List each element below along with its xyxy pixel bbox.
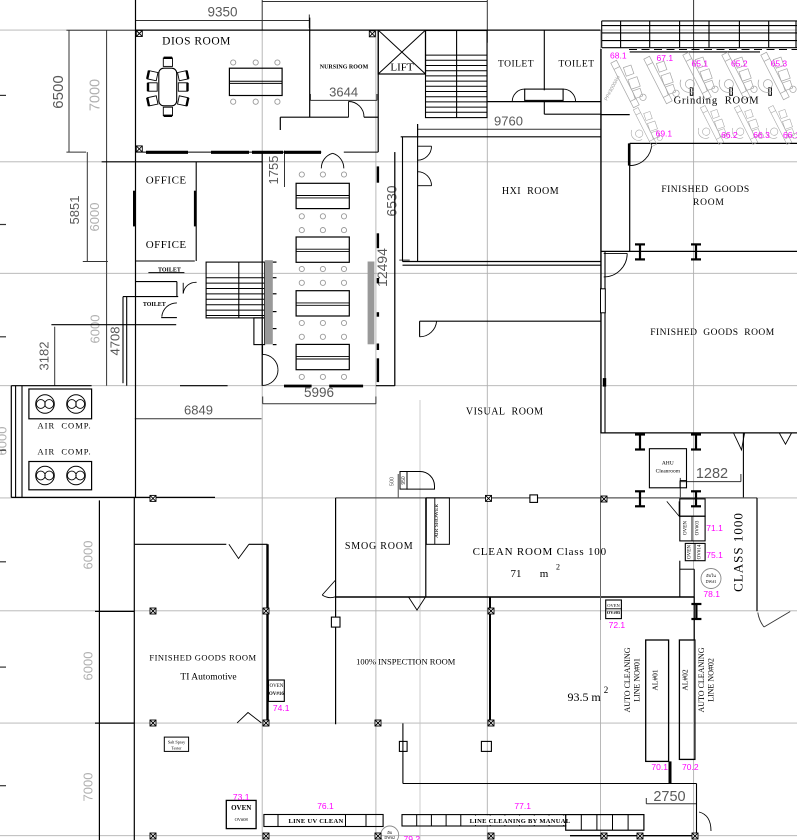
svg-text:AL#02: AL#02 bbox=[680, 669, 689, 690]
svg-text:AUTO CLEANING: AUTO CLEANING bbox=[697, 647, 706, 712]
svg-text:93.5: 93.5 bbox=[568, 690, 589, 704]
svg-text:7000: 7000 bbox=[81, 773, 96, 802]
svg-text:TOILET: TOILET bbox=[498, 60, 534, 70]
svg-text:SMOG ROOM: SMOG ROOM bbox=[345, 541, 414, 552]
svg-text:5851: 5851 bbox=[67, 196, 82, 225]
svg-text:500: 500 bbox=[390, 477, 396, 486]
svg-text:76.1: 76.1 bbox=[317, 801, 334, 811]
svg-text:72.1: 72.1 bbox=[609, 620, 626, 630]
svg-text:FINISHED GOODS ROOM: FINISHED GOODS ROOM bbox=[149, 653, 256, 663]
svg-text:6500: 6500 bbox=[50, 75, 67, 108]
svg-text:1755: 1755 bbox=[266, 156, 281, 185]
svg-text:2: 2 bbox=[604, 685, 609, 695]
svg-text:6000: 6000 bbox=[81, 541, 96, 570]
svg-text:OFFICE: OFFICE bbox=[146, 175, 187, 187]
svg-text:VISUAL ROOM: VISUAL ROOM bbox=[466, 407, 544, 418]
svg-text:DW#1: DW#1 bbox=[706, 579, 717, 584]
svg-text:OV#08: OV#08 bbox=[235, 817, 249, 822]
svg-text:m: m bbox=[591, 690, 601, 704]
svg-text:6000: 6000 bbox=[87, 203, 102, 232]
svg-text:67.1: 67.1 bbox=[657, 53, 674, 63]
svg-text:6000: 6000 bbox=[0, 427, 10, 456]
svg-text:NURSING ROOM: NURSING ROOM bbox=[320, 65, 369, 71]
svg-text:69.1: 69.1 bbox=[656, 129, 673, 139]
svg-text:HXI ROOM: HXI ROOM bbox=[502, 186, 559, 197]
svg-text:71.1: 71.1 bbox=[706, 523, 723, 533]
svg-text:FINISHED GOODS ROOM: FINISHED GOODS ROOM bbox=[650, 328, 775, 338]
svg-text:m: m bbox=[540, 568, 549, 580]
svg-text:Cleanroom: Cleanroom bbox=[656, 469, 681, 475]
svg-text:AIR SHOWER: AIR SHOWER bbox=[434, 504, 440, 538]
svg-text:3182: 3182 bbox=[37, 342, 52, 371]
svg-text:12494: 12494 bbox=[374, 248, 390, 287]
svg-text:66.1: 66.1 bbox=[783, 130, 797, 140]
svg-text:65.2: 65.2 bbox=[731, 59, 748, 69]
svg-text:AHU: AHU bbox=[662, 461, 674, 467]
svg-text:73.1: 73.1 bbox=[233, 792, 250, 802]
svg-text:70.1: 70.1 bbox=[651, 762, 668, 772]
svg-text:LINE NO#02: LINE NO#02 bbox=[707, 658, 716, 702]
svg-text:2: 2 bbox=[556, 563, 560, 572]
svg-text:TI Automotive: TI Automotive bbox=[180, 673, 236, 683]
svg-text:LINE CLEANING BY MANUAL: LINE CLEANING BY MANUAL bbox=[470, 818, 571, 825]
svg-text:OVEN: OVEN bbox=[607, 603, 620, 608]
svg-text:950: 950 bbox=[401, 476, 407, 485]
svg-text:6530: 6530 bbox=[383, 185, 399, 216]
svg-text:OV#16: OV#16 bbox=[269, 692, 285, 697]
svg-text:9350: 9350 bbox=[207, 5, 237, 20]
svg-text:OFFICE: OFFICE bbox=[146, 239, 187, 251]
svg-text:OVEN: OVEN bbox=[683, 521, 688, 535]
svg-text:2750: 2750 bbox=[653, 789, 685, 805]
svg-text:อับใน: อับใน bbox=[706, 573, 716, 578]
svg-text:LINE UV CLEAN: LINE UV CLEAN bbox=[288, 818, 343, 825]
svg-text:FINISHED GOODS: FINISHED GOODS bbox=[661, 185, 749, 195]
svg-text:68.1: 68.1 bbox=[610, 51, 627, 61]
svg-text:DW#2: DW#2 bbox=[384, 835, 395, 840]
svg-text:66.2: 66.2 bbox=[721, 130, 738, 140]
svg-text:6849: 6849 bbox=[184, 403, 213, 418]
svg-text:LIFT: LIFT bbox=[390, 62, 414, 74]
svg-text:9760: 9760 bbox=[494, 114, 523, 129]
svg-text:TOILET: TOILET bbox=[143, 302, 166, 308]
svg-text:74.1: 74.1 bbox=[273, 703, 290, 713]
svg-text:CLEAN ROOM Class 100: CLEAN ROOM Class 100 bbox=[473, 546, 607, 558]
svg-text:OV#03: OV#03 bbox=[695, 520, 700, 535]
svg-text:Grinding ROOM: Grinding ROOM bbox=[674, 96, 760, 107]
svg-text:75.1: 75.1 bbox=[706, 550, 723, 560]
svg-text:DIOS ROOM: DIOS ROOM bbox=[162, 36, 231, 48]
svg-text:AIR COMP.: AIR COMP. bbox=[38, 447, 92, 457]
svg-text:LINE NO#01: LINE NO#01 bbox=[633, 658, 642, 702]
svg-text:ROOM: ROOM bbox=[693, 198, 725, 208]
svg-text:3644: 3644 bbox=[329, 85, 358, 100]
svg-text:TOILET: TOILET bbox=[558, 60, 594, 70]
svg-text:1282: 1282 bbox=[696, 466, 728, 482]
svg-text:AIR COMP.: AIR COMP. bbox=[38, 421, 92, 431]
svg-text:OVEN: OVEN bbox=[231, 804, 251, 812]
svg-text:Tester: Tester bbox=[171, 746, 182, 751]
svg-text:70.2: 70.2 bbox=[682, 762, 699, 772]
svg-text:OV#14: OV#14 bbox=[697, 544, 702, 559]
svg-text:6000: 6000 bbox=[88, 315, 103, 344]
svg-text:4708: 4708 bbox=[108, 327, 123, 356]
svg-text:TOILET: TOILET bbox=[158, 268, 181, 274]
svg-text:Salt Spray: Salt Spray bbox=[168, 740, 186, 745]
svg-text:CLASS 1000: CLASS 1000 bbox=[731, 512, 746, 592]
svg-text:65.3: 65.3 bbox=[771, 59, 788, 69]
svg-text:OV#05: OV#05 bbox=[607, 610, 621, 615]
svg-text:7000: 7000 bbox=[88, 79, 104, 111]
svg-text:78.1: 78.1 bbox=[703, 589, 720, 599]
svg-text:71: 71 bbox=[511, 568, 522, 580]
svg-text:AUTO CLEANING: AUTO CLEANING bbox=[623, 647, 632, 712]
svg-text:100% INSPECTION ROOM: 100% INSPECTION ROOM bbox=[356, 657, 456, 667]
svg-text:OVEN: OVEN bbox=[269, 684, 283, 689]
svg-text:AL#01: AL#01 bbox=[650, 669, 659, 690]
svg-text:77.1: 77.1 bbox=[514, 801, 531, 811]
svg-text:65.1: 65.1 bbox=[692, 59, 709, 69]
svg-text:66.3: 66.3 bbox=[753, 130, 770, 140]
svg-text:OVEN: OVEN bbox=[688, 545, 693, 559]
svg-text:79.2: 79.2 bbox=[404, 834, 421, 840]
svg-text:6000: 6000 bbox=[81, 652, 96, 681]
